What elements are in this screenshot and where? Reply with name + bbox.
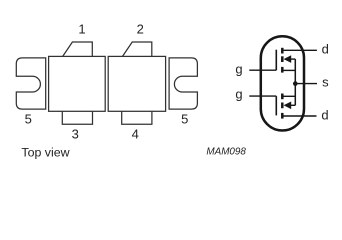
- wire: drain lead upper (d): [284, 49, 317, 51]
- transistor Q1 channel segment (drain side): [281, 48, 284, 54]
- svg-text:d: d: [321, 107, 328, 122]
- flange tab left (pin 5) with open mounting slot: [16, 58, 45, 109]
- svg-text:Top view: Top view: [21, 146, 69, 160]
- transistor Q2 channel segment (drain side): [281, 113, 284, 119]
- transistor Q2 gate electrode: [275, 96, 277, 115]
- wire: gate lead upper (g): [249, 69, 276, 71]
- body cap left half: [49, 56, 106, 111]
- node: common source junction dot: [293, 81, 298, 86]
- transistor Q2 channel segment (bulk, middle): [281, 103, 284, 109]
- svg-text:g: g: [235, 61, 242, 76]
- svg-text:4: 4: [132, 127, 139, 142]
- wire: gate lead lower (g): [249, 95, 276, 97]
- lead 1 (top left, bevelled): [63, 42, 93, 56]
- svg-text:1: 1: [78, 21, 85, 36]
- transistor Q1 bulk arrow: [284, 55, 292, 63]
- transistor Q2 channel segment (source side): [281, 94, 284, 100]
- svg-text:5: 5: [181, 111, 188, 126]
- lead 2 (top right, bevelled): [123, 42, 152, 56]
- wire: source line lower fet: [284, 95, 296, 97]
- wire: bulk tie upper fet: [290, 58, 295, 60]
- transistor Q1 gate electrode: [275, 50, 277, 70]
- lead 4 (bottom right): [122, 111, 152, 124]
- wire: source lead (s): [295, 83, 317, 85]
- wire: bulk tie lower fet: [290, 104, 295, 106]
- package outline oval: [261, 36, 304, 130]
- svg-text:d: d: [322, 41, 329, 56]
- wire: common source bus: [294, 59, 296, 105]
- pin number labels: [25, 21, 189, 141]
- transistor Q1 channel segment (bulk, middle): [281, 56, 284, 62]
- svg-text:g: g: [235, 86, 242, 101]
- svg-text:5: 5: [25, 111, 32, 126]
- svg-text:2: 2: [137, 21, 144, 36]
- wire: drain lead lower (d): [284, 115, 317, 117]
- svg-text:s: s: [322, 75, 329, 90]
- body cap right half: [108, 56, 165, 111]
- transistor Q2 bulk arrow: [284, 102, 292, 110]
- package top view drawing: [16, 42, 197, 124]
- schematic symbol: dual n-channel MOSFET, common source: [235, 36, 329, 130]
- flange tab right (pin 5) with open mounting slot: [169, 58, 197, 109]
- svg-text:3: 3: [72, 127, 79, 142]
- transistor Q1 channel segment (source side): [281, 67, 284, 73]
- svg-text:MAM098: MAM098: [206, 146, 246, 157]
- lead 3 (bottom left): [62, 111, 92, 124]
- wire: source line upper fet: [284, 69, 296, 71]
